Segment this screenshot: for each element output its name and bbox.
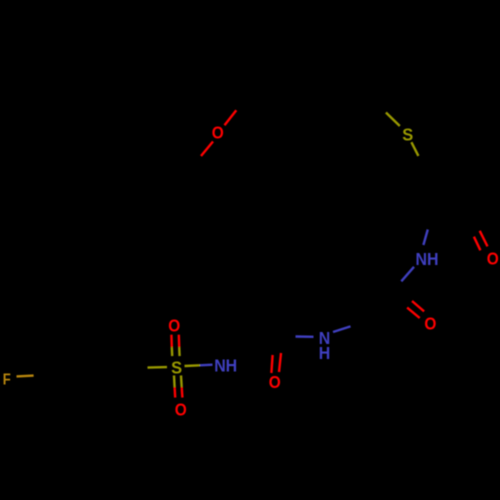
wire S1 up-left (olive half-bond) <box>386 113 400 127</box>
wire S2=O5 double bond line1 (red top half, olive bottom half) <box>170 335 173 348</box>
svg-text:H: H <box>319 343 331 363</box>
wire S2=O6 double bond line1 (olive top half, red bottom half) <box>173 375 176 387</box>
wire S2=O6 double bond line2 <box>180 375 183 387</box>
svg-text:O: O <box>168 315 180 335</box>
svg-text:O: O <box>487 248 499 268</box>
svg-text:F: F <box>3 372 11 389</box>
wire N1 down-left (blue half-bond) <box>401 267 414 282</box>
wire O1-CH3 (red half-bond up-right) <box>225 110 237 125</box>
svg-text:O: O <box>175 399 187 419</box>
svg-text:NH: NH <box>214 356 237 376</box>
svg-text:S: S <box>171 357 182 377</box>
wire S1 down-right (olive half-bond) <box>411 142 418 156</box>
wire C=O4 double bond (red half) <box>271 355 272 373</box>
svg-text:O: O <box>212 123 224 143</box>
svg-text:S: S <box>402 124 413 144</box>
wire F1-C (goldenrod half-bond) <box>17 374 34 377</box>
wire O1-ring (red half-bond down-left) <box>201 142 213 157</box>
wire C=O3 double bond (red half) <box>407 308 420 318</box>
wire S2=O5 double bond line2 <box>178 335 181 348</box>
wire N1 up (blue half-bond) <box>423 230 427 246</box>
svg-text:NH: NH <box>416 249 439 269</box>
wire C=O2 double bond (red half) <box>474 237 481 251</box>
svg-text:O: O <box>424 314 436 334</box>
svg-text:O: O <box>269 372 281 392</box>
wire S2-C left (olive half-bond) <box>148 366 168 369</box>
wire N2 up-right (blue half-bond) <box>333 326 351 332</box>
wire S2-N3 (olive half then blue half) <box>185 364 201 367</box>
wire N2 left (blue half-bond to carbonyl C) <box>296 335 314 338</box>
